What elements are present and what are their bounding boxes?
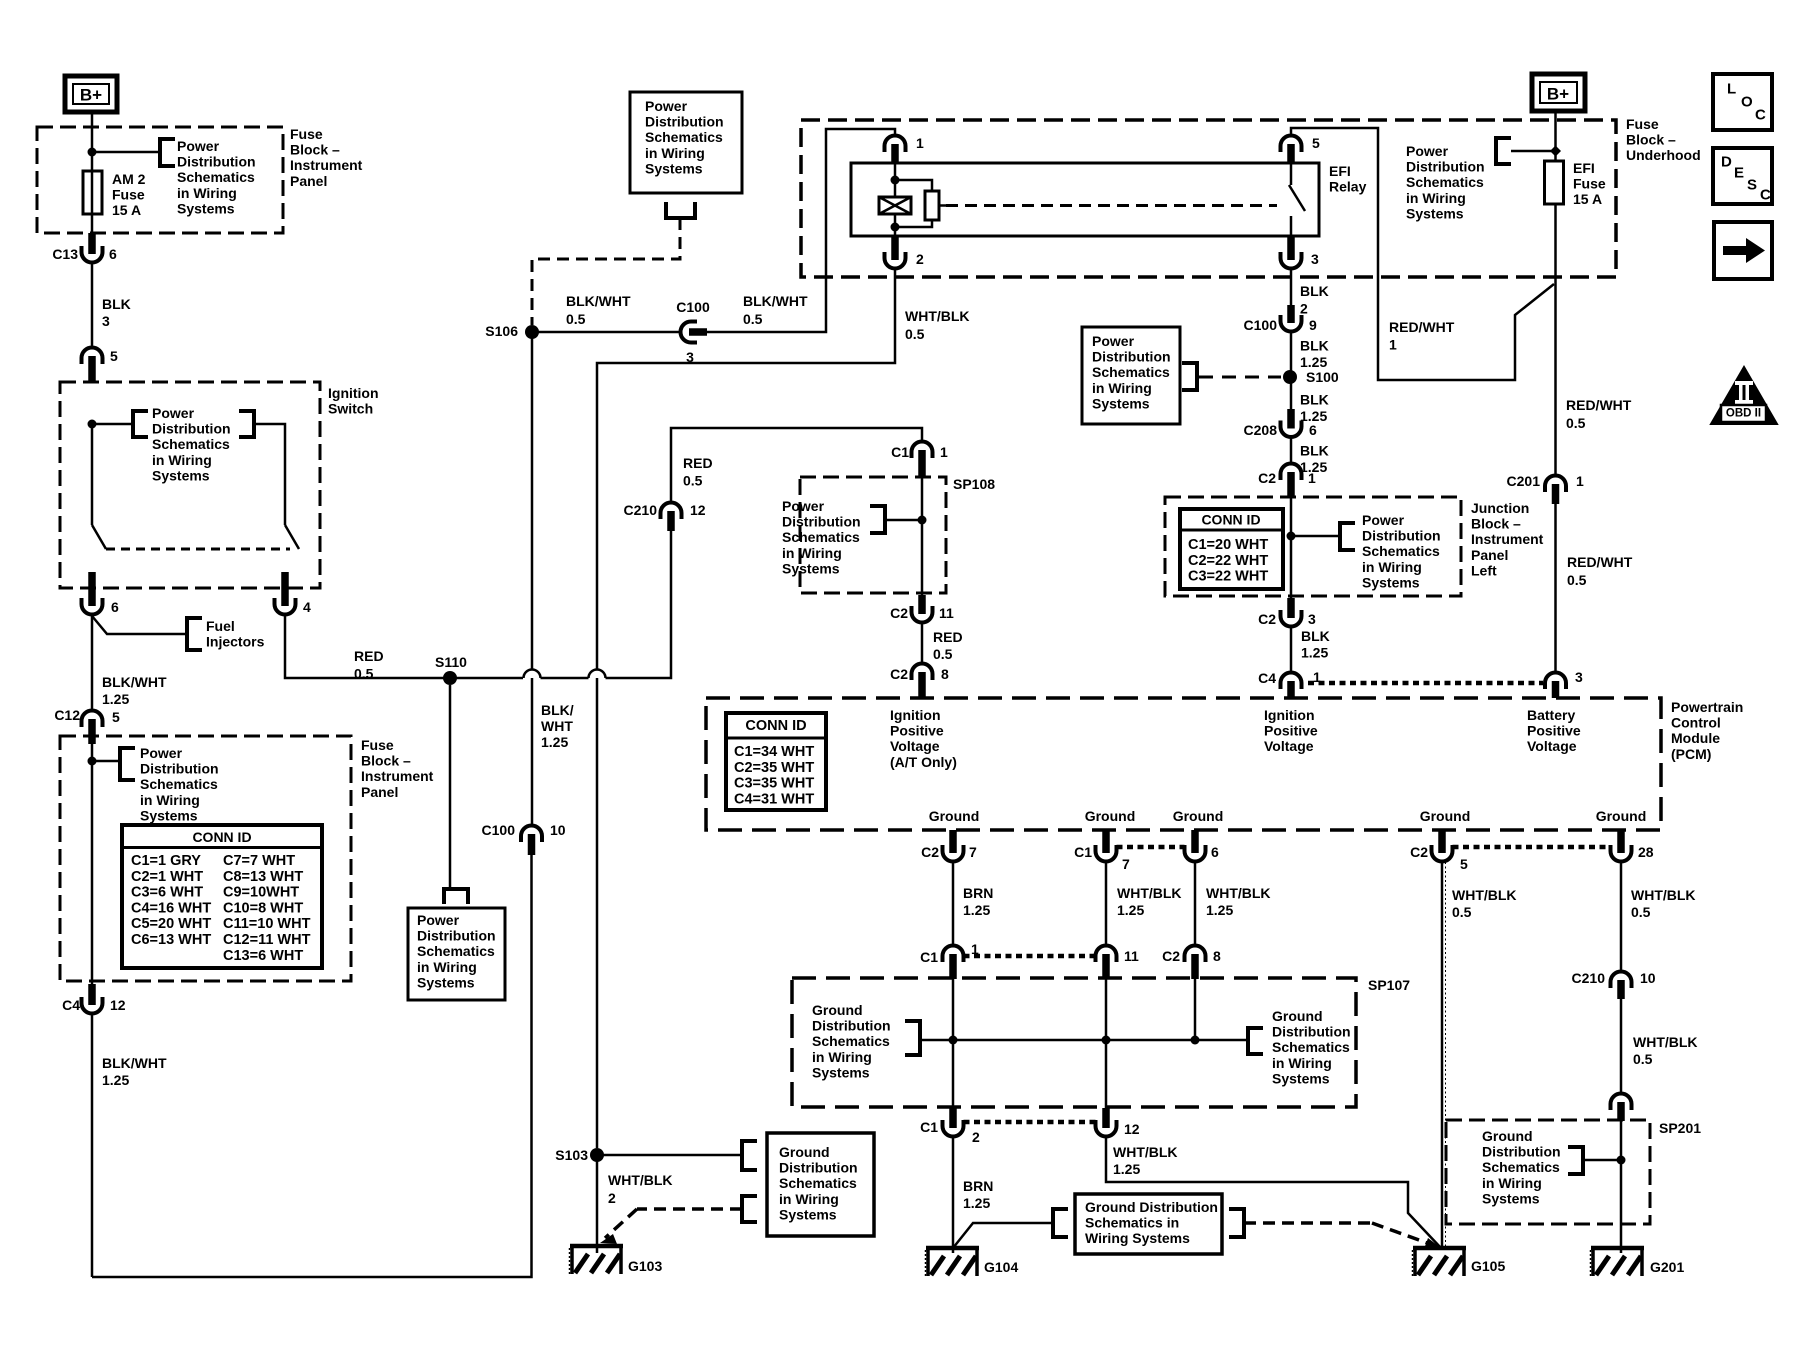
svg-text:5: 5 — [112, 709, 120, 725]
connector C201 pin 1 — [1545, 476, 1566, 486]
wire to C210 corner — [606, 540, 672, 678]
svg-text:in Wiring: in Wiring — [417, 959, 477, 975]
bracket below top center note box — [666, 202, 695, 218]
svg-text:1: 1 — [940, 444, 948, 460]
svg-text:Fuse: Fuse — [1626, 116, 1659, 132]
wire to bracket (junction block) — [1291, 535, 1340, 538]
wire WHT/BLK 1.25 (col 3) — [1194, 862, 1197, 946]
connector relay pin 1 — [885, 136, 906, 147]
svg-text:Power: Power — [1362, 512, 1405, 528]
svg-text:10: 10 — [550, 822, 566, 838]
EFI fuse 15A — [1545, 161, 1564, 204]
svg-text:1: 1 — [1389, 337, 1397, 353]
svg-text:WHT/BLK: WHT/BLK — [1206, 885, 1271, 901]
svg-text:3: 3 — [1308, 611, 1316, 627]
svg-text:E: E — [1734, 165, 1744, 182]
svg-text:WHT/BLK: WHT/BLK — [1113, 1144, 1178, 1160]
wire BLK 1.25 to S100 — [1290, 332, 1293, 378]
dotted link C1-1 to 11 — [964, 954, 1096, 959]
svg-text:C100: C100 — [482, 822, 516, 838]
svg-text:Distribution: Distribution — [1482, 1144, 1561, 1160]
bracket PDS note (junction block) — [1340, 523, 1355, 550]
svg-text:BRN: BRN — [963, 885, 993, 901]
svg-text:1.25: 1.25 — [1301, 645, 1328, 661]
connector C2 pin 1 (junction block) — [1281, 464, 1302, 475]
svg-text:Distribution: Distribution — [1362, 528, 1441, 544]
wire bracket to fuse junction — [1511, 150, 1555, 153]
svg-text:SP107: SP107 — [1368, 977, 1410, 993]
node junction SP201 — [1617, 1156, 1626, 1165]
svg-text:SP108: SP108 — [953, 476, 995, 492]
svg-text:12: 12 — [110, 997, 126, 1013]
svg-text:in Wiring: in Wiring — [645, 145, 705, 161]
splice S110 — [443, 671, 457, 685]
wire coil to pin 2 — [894, 214, 897, 237]
svg-text:L: L — [1727, 81, 1736, 98]
svg-text:3: 3 — [102, 313, 110, 329]
svg-text:Systems: Systems — [1482, 1190, 1540, 1206]
svg-text:C13=6 WHT: C13=6 WHT — [223, 948, 303, 964]
bracket right of SP201 note — [1568, 1147, 1583, 1174]
svg-text:EFI: EFI — [1573, 160, 1595, 176]
wire between hops — [541, 677, 589, 680]
svg-text:in Wiring: in Wiring — [1482, 1175, 1542, 1191]
svg-text:BLK: BLK — [102, 296, 131, 312]
svg-text:Distribution: Distribution — [152, 421, 231, 437]
svg-text:0.5: 0.5 — [743, 311, 763, 327]
svg-text:1.25: 1.25 — [1117, 902, 1144, 918]
svg-text:Schematics: Schematics — [1272, 1039, 1350, 1055]
dotted link C2-5 to 28 — [1453, 845, 1610, 850]
svg-text:WHT/BLK: WHT/BLK — [608, 1172, 673, 1188]
svg-text:S: S — [1747, 177, 1757, 194]
svg-text:B+: B+ — [80, 86, 102, 105]
svg-text:Schematics: Schematics — [1406, 174, 1484, 190]
wire pin1 to coil — [894, 162, 897, 198]
svg-text:in Wiring: in Wiring — [1092, 380, 1152, 396]
node junction in lower fuse block — [88, 757, 97, 766]
svg-text:CONN ID: CONN ID — [745, 718, 806, 734]
svg-text:6: 6 — [111, 599, 119, 615]
svg-text:OBD II: OBD II — [1726, 408, 1761, 420]
EFI relay box — [851, 163, 1319, 236]
bracket right of S100 note box — [1182, 363, 1197, 390]
svg-text:Ignition: Ignition — [328, 385, 379, 401]
wire S110 to note box — [449, 685, 452, 888]
powertrain control module dashed box — [706, 698, 1661, 830]
ground G103 — [570, 1244, 623, 1249]
connector relay pin 5 — [1281, 136, 1302, 147]
svg-text:6: 6 — [1211, 844, 1219, 860]
wire BLK 2 from relay pin 3 — [1290, 269, 1293, 308]
bracket left of SP107 right note — [1248, 1028, 1263, 1054]
svg-text:0.5: 0.5 — [1566, 415, 1586, 431]
svg-text:Power: Power — [782, 498, 825, 514]
svg-text:Distribution: Distribution — [779, 1160, 858, 1176]
relay coil top junction — [891, 176, 900, 185]
svg-text:S103: S103 — [555, 1147, 588, 1163]
svg-text:Schematics: Schematics — [1362, 543, 1440, 559]
svg-text:C2: C2 — [890, 666, 908, 682]
connector C210 pin 10 — [1611, 972, 1632, 983]
svg-text:0.5: 0.5 — [933, 646, 953, 662]
connector pin 11 (SP107) — [1096, 946, 1117, 956]
wire S103 to bracket — [597, 1154, 742, 1157]
svg-text:Systems: Systems — [812, 1064, 870, 1080]
svg-text:Systems: Systems — [1272, 1070, 1330, 1086]
svg-text:1.25: 1.25 — [963, 902, 990, 918]
connector C2 pin 3 — [1281, 616, 1302, 627]
dotted link C4 to pin 3 (PCM) — [1308, 681, 1543, 686]
svg-text:BLK: BLK — [1300, 443, 1329, 459]
wire RED/WHT 1 from relay pin 5 — [1291, 128, 1554, 380]
svg-text:Schematics: Schematics — [782, 529, 860, 545]
svg-text:O: O — [1741, 94, 1753, 111]
svg-text:0.5: 0.5 — [905, 326, 925, 342]
wire RED 0.5 C2-11 to C2-8 — [921, 623, 924, 664]
relay switch contact upper — [1290, 163, 1293, 185]
ground G201 — [1591, 1246, 1644, 1251]
svg-text:RED: RED — [354, 648, 384, 664]
svg-text:Systems: Systems — [1092, 395, 1150, 411]
wire BRN 1.25 (upper) — [952, 862, 955, 946]
bracket right of SP107 left note — [905, 1021, 920, 1055]
svg-text:1.25: 1.25 — [1206, 902, 1233, 918]
connector relay pin 2 — [885, 258, 906, 269]
connector C2 pin 7 (ground) — [943, 851, 964, 862]
relay coil bottom junction — [891, 223, 900, 232]
node junction col3 — [1191, 1036, 1200, 1045]
svg-text:Voltage: Voltage — [1527, 738, 1577, 754]
relay resistor branch bottom — [895, 220, 932, 227]
fuse block underhood / relay dashed box — [801, 120, 1616, 277]
wire through lower fuse block — [91, 744, 94, 987]
svg-text:BLK: BLK — [1300, 338, 1329, 354]
svg-text:Block –: Block – — [361, 753, 411, 769]
connector C1 pin 1 (SP107) — [943, 946, 964, 956]
wire through SP201 to G201 — [1620, 1121, 1623, 1253]
wire RED 0.5 to C1 pin 1 — [671, 428, 922, 503]
svg-text:Ground: Ground — [812, 1002, 863, 1018]
svg-text:Schematics: Schematics — [645, 129, 723, 145]
connector pin 28 (ground) — [1611, 851, 1632, 862]
svg-text:C12: C12 — [54, 707, 80, 723]
connector C1 pin 2 (below SP107) — [943, 1126, 964, 1137]
svg-text:0.5: 0.5 — [354, 666, 374, 682]
connector pin 3 (PCM battery positive) — [1545, 673, 1566, 683]
relay coil symbol — [879, 197, 911, 214]
wire RED 0.5 ignition sw pin4 to S110 run — [285, 615, 523, 679]
svg-text:S100: S100 — [1306, 369, 1339, 385]
bracket right of G104 note box — [1229, 1209, 1244, 1237]
svg-text:Battery: Battery — [1527, 707, 1575, 723]
svg-text:in Wiring: in Wiring — [1362, 559, 1422, 575]
svg-text:Schematics in: Schematics in — [1085, 1215, 1179, 1231]
svg-text:C2: C2 — [890, 605, 908, 621]
dashed wire from G104 note box — [1244, 1221, 1372, 1225]
svg-text:C2: C2 — [1410, 844, 1428, 860]
wire junction to bracket — [92, 151, 158, 154]
ground G104 — [926, 1246, 979, 1251]
svg-text:C10=8 WHT: C10=8 WHT — [223, 900, 303, 916]
wire through SP108 box — [921, 467, 924, 596]
svg-text:2: 2 — [972, 1129, 980, 1145]
svg-text:WHT/BLK: WHT/BLK — [1117, 885, 1182, 901]
bracket above S110 note box — [444, 889, 468, 904]
svg-text:(PCM): (PCM) — [1671, 746, 1711, 762]
wire RED/WHT 0.5 to PCM pin 3 — [1554, 502, 1557, 673]
svg-text:Block –: Block – — [290, 142, 340, 158]
note box Ground Distribution Schematics (G104) — [1075, 1194, 1222, 1254]
ignition switch contact dashes — [106, 548, 290, 551]
wire BLK/WHT 1.25 to C12 — [91, 615, 94, 711]
svg-text:Ground: Ground — [1085, 808, 1136, 824]
bracket fuel injectors — [187, 618, 202, 650]
svg-text:Systems: Systems — [152, 467, 210, 483]
svg-text:0.5: 0.5 — [683, 473, 703, 489]
svg-text:Injectors: Injectors — [206, 634, 265, 650]
bracket left of PDS note (ignition switch) — [133, 411, 148, 437]
svg-text:C2=35 WHT: C2=35 WHT — [734, 760, 814, 776]
svg-text:10: 10 — [1640, 970, 1656, 986]
wire S103 to G103 — [596, 1155, 599, 1253]
connector C12 pin 5 — [82, 711, 103, 721]
connector C100 pin 10 — [521, 826, 542, 837]
wire BLK 1.25 to C4 pin 1 — [1290, 627, 1293, 673]
svg-text:C4=16 WHT: C4=16 WHT — [131, 900, 211, 916]
connector C210 pin 12 — [661, 503, 682, 514]
wire S106 to C100 pin 3 — [532, 331, 681, 334]
svg-text:BLK: BLK — [1301, 628, 1330, 644]
svg-text:EFI: EFI — [1329, 163, 1351, 179]
svg-text:28: 28 — [1638, 844, 1654, 860]
svg-text:WHT/BLK: WHT/BLK — [1631, 887, 1696, 903]
svg-text:1.25: 1.25 — [541, 734, 568, 750]
svg-text:in Wiring: in Wiring — [1272, 1055, 1332, 1071]
svg-text:Distribution: Distribution — [1272, 1024, 1351, 1040]
svg-text:Schematics: Schematics — [177, 169, 255, 185]
splice S106 — [525, 325, 539, 339]
svg-text:C: C — [1760, 187, 1771, 204]
svg-text:C2=1 WHT: C2=1 WHT — [131, 869, 203, 885]
svg-text:C2: C2 — [921, 844, 939, 860]
svg-text:Ignition: Ignition — [1264, 707, 1315, 723]
bracket right of SP108 note — [870, 506, 885, 533]
svg-text:WHT: WHT — [541, 718, 573, 734]
connector C4 pin 1 (PCM) — [1281, 673, 1302, 683]
svg-text:Ground: Ground — [1173, 808, 1224, 824]
svg-text:Schematics: Schematics — [152, 436, 230, 452]
svg-text:1: 1 — [916, 135, 924, 151]
svg-text:4: 4 — [303, 599, 311, 615]
wire bottom run to C100 pin 10 — [92, 854, 532, 1277]
bracket PDS note (lower fuse block) — [120, 748, 135, 780]
SP107 dashed box — [792, 978, 1356, 1107]
svg-text:Systems: Systems — [779, 1206, 837, 1222]
svg-text:WHT/BLK: WHT/BLK — [1633, 1034, 1698, 1050]
wire hop over BLK/WHT wire — [524, 670, 541, 679]
svg-text:G103: G103 — [628, 1258, 662, 1274]
wire EFI fuse down to C201 — [1554, 204, 1557, 476]
node junction on B+ wire — [88, 148, 97, 157]
svg-text:3: 3 — [1575, 669, 1583, 685]
dashed diagonal to G105 — [1372, 1223, 1430, 1244]
svg-text:Distribution: Distribution — [417, 928, 496, 944]
svg-text:1.25: 1.25 — [1300, 354, 1327, 370]
relay resistor branch top — [895, 180, 932, 191]
relay resistor to switch link — [939, 204, 946, 207]
ground G105 — [1413, 1246, 1466, 1251]
svg-text:Ground: Ground — [1482, 1128, 1533, 1144]
svg-text:11: 11 — [1124, 948, 1139, 964]
svg-text:C3=22 WHT: C3=22 WHT — [1188, 569, 1268, 585]
connector C208 pin 6 — [1281, 427, 1302, 438]
svg-text:Ground: Ground — [929, 808, 980, 824]
svg-text:Instrument: Instrument — [1471, 531, 1544, 547]
svg-text:Distribution: Distribution — [1406, 159, 1485, 175]
svg-text:C1: C1 — [891, 444, 909, 460]
svg-text:Systems: Systems — [782, 560, 840, 576]
wire junction to bracket (lower fuse block) — [92, 760, 118, 763]
svg-text:12: 12 — [1124, 1121, 1140, 1137]
svg-text:5: 5 — [110, 348, 118, 364]
bracket right of PDS note (ignition switch) — [239, 411, 254, 437]
fuse AM2 15A — [91, 171, 94, 233]
svg-text:SP201: SP201 — [1659, 1120, 1701, 1136]
svg-text:Block –: Block – — [1471, 516, 1521, 532]
svg-text:S110: S110 — [435, 654, 467, 670]
svg-text:Control: Control — [1671, 715, 1721, 731]
svg-text:C9=10WHT: C9=10WHT — [223, 885, 299, 901]
wire right bracket to switch contact — [254, 424, 285, 525]
wire bracket to SP108 wire — [885, 519, 922, 522]
svg-text:Systems: Systems — [417, 974, 475, 990]
note box Power Distribution Schematics (S110) — [408, 908, 505, 1000]
svg-text:CONN ID: CONN ID — [1201, 512, 1260, 528]
svg-text:15 A: 15 A — [112, 202, 141, 218]
connector pin 5 (ignition switch) — [82, 348, 103, 359]
fuse block - instrument panel dashed box (top) — [37, 127, 283, 233]
svg-text:C100: C100 — [676, 299, 710, 315]
connector SP201 entry — [1611, 1094, 1632, 1105]
battery positive B+ terminal (left) — [65, 76, 117, 112]
svg-text:7: 7 — [1122, 856, 1130, 872]
svg-text:Power: Power — [645, 98, 688, 114]
svg-text:1: 1 — [1576, 473, 1584, 489]
connector C1 pin 1 (SP108) — [912, 442, 933, 453]
wire WHT/BLK 0.5 to G105 — [1441, 862, 1444, 1249]
wire left switch contact — [91, 424, 94, 525]
svg-text:G104: G104 — [984, 1259, 1018, 1275]
svg-text:C201: C201 — [1507, 473, 1541, 489]
svg-text:C3=6 WHT: C3=6 WHT — [131, 885, 203, 901]
svg-text:Wiring Systems: Wiring Systems — [1085, 1230, 1190, 1246]
svg-text:Systems: Systems — [1406, 205, 1464, 221]
svg-text:5: 5 — [1312, 135, 1320, 151]
CONN ID table (fuse block IP) — [122, 825, 322, 968]
dashed reference wire to G103 — [637, 1207, 742, 1211]
ignition switch dashed box — [60, 382, 320, 588]
svg-text:C208: C208 — [1244, 422, 1278, 438]
dotted link C1-2 to 12 — [964, 1120, 1096, 1125]
svg-text:Relay: Relay — [1329, 179, 1367, 195]
connector C100 pin 9 — [1281, 321, 1302, 332]
svg-text:in Wiring: in Wiring — [779, 1191, 839, 1207]
note box Power Distribution Schematics (top center) — [630, 92, 742, 193]
svg-text:C1=1 GRY: C1=1 GRY — [131, 853, 201, 869]
connector C4 pin 12 — [82, 1003, 103, 1014]
wire bracket to left ground wire — [920, 1039, 1248, 1042]
svg-text:C2: C2 — [1258, 611, 1276, 627]
wire BRN 1.25 to G104 — [952, 1137, 955, 1254]
svg-text:BLK/WHT: BLK/WHT — [743, 293, 808, 309]
svg-text:2: 2 — [608, 1190, 616, 1206]
LOC icon box — [1713, 74, 1772, 130]
svg-text:C13: C13 — [52, 246, 78, 262]
svg-text:C12=11 WHT: C12=11 WHT — [223, 932, 311, 948]
svg-text:C7=7 WHT: C7=7 WHT — [223, 853, 295, 869]
svg-text:5: 5 — [1460, 856, 1468, 872]
svg-text:6: 6 — [1309, 422, 1317, 438]
wire junction to left bracket — [92, 423, 133, 426]
connector pin 6 (ignition switch bottom) — [82, 604, 103, 615]
connector C2 pin 8 (SP107) — [1185, 946, 1206, 956]
svg-text:G105: G105 — [1471, 1258, 1505, 1274]
svg-text:8: 8 — [941, 666, 949, 682]
svg-text:Schematics: Schematics — [140, 776, 218, 792]
svg-text:C5=20 WHT: C5=20 WHT — [131, 916, 211, 932]
wire hop over WHT/BLK wire — [589, 670, 606, 679]
svg-text:Ignition: Ignition — [890, 707, 941, 723]
svg-text:1: 1 — [1308, 470, 1316, 486]
switch diagonal right — [285, 525, 299, 549]
svg-text:Positive: Positive — [1264, 723, 1318, 739]
svg-text:C8=13 WHT: C8=13 WHT — [223, 869, 303, 885]
relay switch contact lower — [1290, 216, 1293, 237]
svg-text:BLK/WHT: BLK/WHT — [566, 293, 631, 309]
svg-text:Schematics: Schematics — [417, 943, 495, 959]
connector relay pin 3 — [1281, 258, 1302, 269]
svg-text:C: C — [1755, 107, 1766, 124]
svg-text:Power: Power — [1092, 333, 1135, 349]
dotted link C1-7 to 6 — [1117, 845, 1185, 850]
svg-text:BRN: BRN — [963, 1178, 993, 1194]
svg-text:Distribution: Distribution — [140, 761, 219, 777]
relay switch blade — [1289, 185, 1305, 211]
svg-text:7: 7 — [969, 844, 977, 860]
svg-text:C4: C4 — [1258, 670, 1276, 686]
svg-text:Systems: Systems — [645, 160, 703, 176]
svg-text:Fuse: Fuse — [361, 737, 394, 753]
svg-text:WHT/BLK: WHT/BLK — [1452, 887, 1517, 903]
svg-text:Panel: Panel — [361, 784, 398, 800]
wire BLK 1.25 to C2 — [1290, 437, 1293, 464]
svg-text:3: 3 — [1311, 251, 1319, 267]
svg-text:Systems: Systems — [1362, 574, 1420, 590]
wire to fuel injectors — [92, 616, 186, 634]
svg-text:Power: Power — [177, 138, 220, 154]
connector C2 pin 11 — [912, 612, 933, 623]
wire B+ to AM2 fuse — [91, 112, 94, 171]
bracket PDS note (fuse block underhood) — [1496, 138, 1511, 164]
relay resistor — [925, 191, 939, 220]
svg-text:6: 6 — [109, 246, 117, 262]
wire WHT/BLK 0.5 to SP201 — [1620, 999, 1623, 1094]
wire BLK 3 — [91, 263, 94, 348]
svg-text:Systems: Systems — [177, 200, 235, 216]
fuse block - instrument panel dashed box (lower) — [60, 736, 351, 981]
svg-text:2: 2 — [916, 251, 924, 267]
